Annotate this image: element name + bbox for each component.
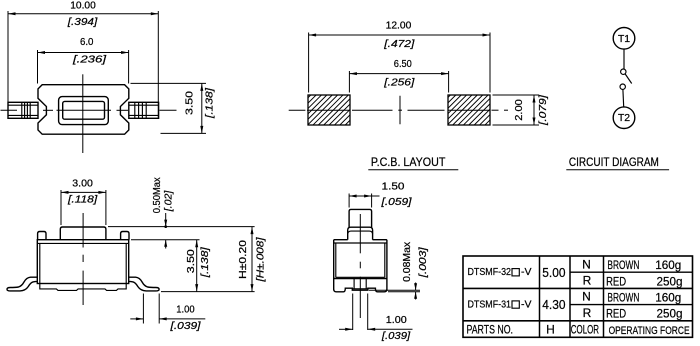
svg-text:BROWN: BROWN bbox=[607, 258, 639, 272]
svg-text:[.039]: [.039] bbox=[381, 331, 411, 342]
body outline (side view) bbox=[37, 240, 128, 284]
dim 6.0 dimension line bbox=[38, 52, 129, 54]
right PCB pad (hatched) bbox=[448, 95, 490, 125]
svg-text:2.00: 2.00 bbox=[514, 99, 525, 121]
body sides (front view) bbox=[333, 240, 335, 290]
left lead (gull wing) bbox=[7, 277, 38, 291]
left PCB pad (hatched) bbox=[308, 95, 350, 125]
vertical centerline (front view) bbox=[359, 214, 361, 253]
switch contact upper bbox=[621, 69, 626, 74]
dim 10.00 extension lines bbox=[7, 11, 9, 119]
svg-text:250g: 250g bbox=[657, 307, 683, 321]
body inner wall right bbox=[125, 243, 127, 283]
wire switch to T2 bbox=[622, 89, 625, 107]
svg-text:250g: 250g bbox=[657, 274, 683, 288]
svg-text:R: R bbox=[583, 274, 592, 288]
right lead (gull wing) bbox=[128, 277, 159, 291]
row line r2/r3 bbox=[463, 287, 693, 289]
svg-text:[.256]: [.256] bbox=[383, 77, 415, 88]
svg-text:3.50: 3.50 bbox=[185, 90, 196, 115]
svg-text:[.02]: [.02] bbox=[163, 190, 174, 212]
svg-text:0.50Max: 0.50Max bbox=[152, 177, 163, 213]
terminal T2 bbox=[613, 107, 635, 129]
dim 12.00 extension lines bbox=[308, 33, 310, 93]
column line 2 bbox=[569, 256, 571, 337]
svg-text:1.50: 1.50 bbox=[382, 182, 406, 193]
svg-text:160g: 160g bbox=[655, 290, 681, 304]
svg-text:3.50: 3.50 bbox=[186, 249, 197, 274]
left terminal (top view) bbox=[8, 102, 38, 118]
svg-text:[.138]: [.138] bbox=[204, 88, 215, 120]
svg-text:3.00: 3.00 bbox=[72, 179, 93, 190]
seating-plane extension line bbox=[161, 291, 255, 293]
svg-text:H±0.20: H±0.20 bbox=[238, 239, 249, 279]
body top band line bbox=[37, 242, 128, 244]
svg-text:COLOR: COLOR bbox=[571, 323, 599, 337]
svg-text:BROWN: BROWN bbox=[607, 290, 639, 304]
dim 2.00 extension lines bbox=[493, 94, 540, 96]
svg-text:[.118]: [.118] bbox=[67, 195, 98, 206]
bottom plate (side view) bbox=[40, 284, 126, 291]
dim 0.50Max dimension line segments bbox=[165, 213, 167, 227]
body bottom band lines (front view) bbox=[336, 276, 385, 278]
plunger (side view) bbox=[60, 227, 106, 240]
svg-text:160g: 160g bbox=[655, 258, 681, 272]
center boss inner lines bbox=[352, 288, 368, 290]
svg-text:6.0: 6.0 bbox=[80, 37, 94, 48]
row line r3/r4 partial bbox=[570, 304, 693, 306]
dim 1.50 dimension line bbox=[349, 195, 379, 197]
dim 10.00 dimension line bbox=[8, 13, 158, 15]
svg-text:4.30: 4.30 bbox=[542, 297, 565, 312]
dim 0.08Max dimension line segments bbox=[415, 283, 417, 291]
bottom outline with feet and center boss (front view) bbox=[334, 288, 387, 292]
dim 3.00 extension lines bbox=[60, 190, 62, 225]
column line 1 bbox=[539, 256, 541, 337]
svg-text:[.236]: [.236] bbox=[72, 55, 107, 66]
left corner post bbox=[38, 232, 46, 240]
svg-text:[.059]: [.059] bbox=[380, 197, 412, 208]
dim 12.00 dimension line bbox=[309, 34, 490, 36]
plunger-top extension line bbox=[108, 226, 255, 228]
dim 2.00 dimension line bbox=[533, 95, 535, 125]
svg-text:12.00: 12.00 bbox=[386, 21, 412, 32]
row line r4/r5 bbox=[463, 320, 693, 322]
svg-text:-V: -V bbox=[521, 299, 532, 310]
vertical centerline (side view) bbox=[82, 213, 84, 248]
title underline bbox=[368, 169, 458, 171]
title underline bbox=[566, 169, 669, 171]
svg-text:RED: RED bbox=[606, 307, 626, 321]
collar outer (front view) bbox=[348, 227, 373, 240]
button inner face (top view) bbox=[63, 101, 105, 119]
svg-text:OPERATING FORCE: OPERATING FORCE bbox=[609, 325, 690, 337]
row line r1/r2 partial bbox=[570, 271, 693, 273]
collar inner line bbox=[348, 231, 373, 234]
svg-text:N: N bbox=[582, 290, 591, 304]
svg-text:1.00: 1.00 bbox=[176, 305, 195, 316]
svg-text:PARTS NO.: PARTS NO. bbox=[467, 323, 514, 337]
dim H dimension line bbox=[251, 227, 253, 292]
stem (front view) bbox=[349, 209, 372, 227]
svg-text:T1: T1 bbox=[618, 33, 630, 45]
table frame bbox=[463, 256, 693, 337]
svg-text:RED: RED bbox=[606, 274, 626, 288]
dim 3.00 dimension line bbox=[61, 191, 106, 193]
svg-text:R: R bbox=[583, 306, 592, 320]
dim 1.00 extension lines (front view) bbox=[352, 294, 354, 331]
svg-text:DTSMF-32: DTSMF-32 bbox=[468, 267, 512, 278]
svg-text:[.138]: [.138] bbox=[200, 247, 211, 279]
terminal T1 bbox=[613, 28, 635, 50]
dim 1.00 dimension line segments (side view) bbox=[130, 318, 143, 320]
dim 3.50 extension lines (top view right) bbox=[131, 82, 207, 84]
svg-text:H: H bbox=[546, 322, 555, 336]
svg-text:[.394]: [.394] bbox=[67, 17, 98, 28]
switch body outline (top view) bbox=[38, 85, 129, 135]
svg-text:[.039]: [.039] bbox=[169, 321, 201, 332]
svg-text:1.00: 1.00 bbox=[386, 315, 408, 326]
right terminal (top view) bbox=[129, 102, 159, 118]
svg-text:P.C.B. LAYOUT: P.C.B. LAYOUT bbox=[371, 157, 446, 169]
svg-text:DTSMF-31: DTSMF-31 bbox=[468, 299, 512, 310]
svg-text:N: N bbox=[582, 257, 591, 271]
switch contact lower bbox=[620, 84, 625, 89]
svg-text:-V: -V bbox=[521, 267, 532, 278]
dim 6.50 dimension line bbox=[349, 73, 448, 75]
svg-text:5.00: 5.00 bbox=[542, 265, 565, 280]
boss-bottom extension line bbox=[369, 289, 420, 291]
dim 1.50 extension lines bbox=[348, 194, 350, 208]
column line 3 bbox=[603, 256, 605, 337]
dim 6.50 extension lines bbox=[348, 71, 350, 93]
svg-text:CIRCUIT DIAGRAM: CIRCUIT DIAGRAM bbox=[569, 157, 659, 169]
dim 1.00 dimension line segments (front view) bbox=[339, 328, 353, 330]
svg-text:[.003]: [.003] bbox=[418, 247, 429, 279]
svg-text:0.08Max: 0.08Max bbox=[402, 242, 413, 282]
body inner wall left bbox=[39, 243, 41, 283]
body top band line (front view) bbox=[334, 242, 387, 244]
dim 3.50 dimension line (side view) bbox=[196, 240, 198, 292]
body-top extension line bbox=[131, 239, 200, 241]
horizontal centerline through pads bbox=[289, 109, 306, 111]
svg-text:T2: T2 bbox=[618, 112, 630, 124]
svg-text:6.50: 6.50 bbox=[394, 59, 413, 70]
dim 3.50 dimension line (top view right) bbox=[201, 83, 203, 133]
svg-text:10.00: 10.00 bbox=[70, 0, 96, 11]
button outer rim (top view) bbox=[59, 97, 109, 125]
dim 6.0 extension lines bbox=[37, 50, 39, 84]
horizontal centerline (top view) bbox=[1, 109, 18, 111]
svg-text:[.079]: [.079] bbox=[538, 95, 549, 127]
vertical centerline (top view) bbox=[82, 74, 84, 153]
dim 1.00 extension lines (side view) bbox=[142, 294, 144, 324]
body top surface (front view) bbox=[334, 239, 348, 241]
seating extension line (front view) bbox=[388, 291, 420, 293]
svg-text:[H±.008]: [H±.008] bbox=[255, 237, 266, 283]
center crosshair vertical bbox=[399, 96, 401, 125]
svg-text:[.472]: [.472] bbox=[383, 39, 415, 50]
wire T1 to switch bbox=[623, 49, 625, 69]
right corner post bbox=[121, 232, 129, 240]
switch blade bbox=[625, 74, 632, 84]
